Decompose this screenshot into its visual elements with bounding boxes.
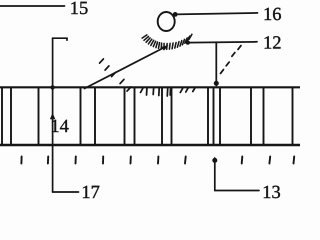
band divider v8 [161,88,163,144]
spray dash a3 [112,72,116,76]
svg-text:14: 14 [50,117,69,137]
band divider v11 [213,88,215,144]
spray dash a5 [127,87,131,91]
leader 13 elbow [215,190,259,192]
band bottom edge [0,144,302,146]
band divider v6 [124,88,126,144]
spray dash a4 [120,79,124,83]
coating tick c3 [152,89,154,95]
guide tick t3 [75,157,77,164]
coating tick c9 [193,87,196,91]
wire leader 16 [175,13,257,15]
band divider v14 [263,88,265,144]
band divider v3 [38,88,40,144]
nozzle hatching 12 (fringe arc) [142,34,192,49]
spray dash a2 [105,66,109,70]
band divider v10 [207,88,209,144]
guide tick t10 [293,157,296,164]
spray dash b2 [226,62,229,66]
arrowhead of spray diagonal [162,45,169,51]
guide tick t6 [157,157,159,164]
spray dash a1 [100,59,104,63]
spray diagonal line [85,46,167,88]
coating tick c4 [158,89,160,96]
leader 17 bottom elbow [53,191,79,193]
leader 17 top stub [53,38,67,40]
band divider v13 [250,88,252,144]
node dot at hatching right end (12 leader start) [186,40,190,44]
band divider v5 [94,88,96,144]
guide tick t7 [184,157,187,164]
roller 16 (circle) [158,12,175,31]
arrowhead 14 pointing up [50,113,55,120]
junction dot on band top edge [50,85,54,89]
band divider v7 [134,88,136,144]
spray dash b3 [232,53,235,57]
guide tick t8 [241,157,244,164]
coating tick c7 [180,88,182,92]
svg-text:13: 13 [262,183,281,200]
svg-text:12: 12 [263,33,282,53]
guide tick t2 [47,157,49,164]
coating tick c8 [186,88,188,92]
guide tick t1 below band [20,157,22,164]
node dot on roller 16 [173,12,178,17]
coating tick c2 [146,89,148,96]
svg-text:17: 17 [81,183,100,200]
wire leader 15 [0,5,65,7]
svg-text:15: 15 [70,0,89,19]
coating tick c1 under band edge [141,88,144,93]
band divider v12 [219,88,221,144]
band top edge [0,86,302,88]
spray dash b4 [238,46,241,50]
band divider v9 [171,88,173,144]
arrow dot 12 pointing at band [214,81,219,86]
svg-text:16: 16 [263,5,282,25]
guide tick t9 [268,157,271,164]
band divider v1 [1,88,3,144]
coating tick c5 [166,89,168,97]
guide tick t5 [130,157,132,164]
guide tick t4 [102,157,104,164]
wire leader 12 vertical drop [215,42,217,81]
band divider v4 [80,88,82,144]
band divider v15 [292,88,294,144]
leader line 14/17 vertical [52,38,54,192]
spray dash b1 [221,70,224,74]
wire leader 12 horizontal [188,41,257,44]
coating tick c6 [169,89,171,95]
leader 13 vertical [214,161,216,191]
arrow dot 13 pointing up [213,157,217,162]
band divider v2 [10,88,12,144]
